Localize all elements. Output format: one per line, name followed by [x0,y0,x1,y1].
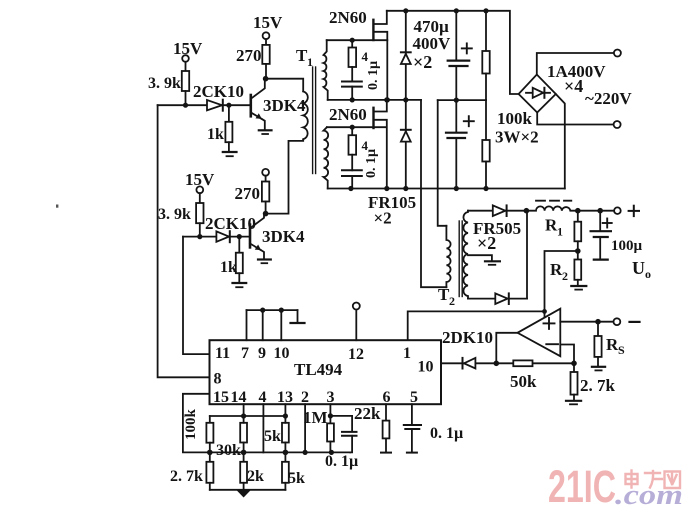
wire bottom ground rail [210,489,286,491]
ground R2 [571,286,586,290]
100k 3Wx2 label [495,109,539,147]
junction 1M bottom [329,450,334,455]
junction snubber1 top [350,38,355,43]
junction R1/R2 [575,248,581,254]
junction pin2 [303,450,308,455]
output - terminal [614,318,621,325]
wire opamp output [496,333,517,364]
svg-text:1k: 1k [207,126,224,143]
wire snubber1 bottom rail [328,99,421,101]
ground (1k stage2) [233,283,247,287]
wire opamp minus input [560,345,574,363]
junction FR105#1 mid rail [403,97,408,102]
Uo label [632,258,651,281]
diode FR505 #1 (top) [468,205,526,216]
svg-text:3. 9k: 3. 9k [158,206,191,223]
transistor Q2 3DK4 (stage2) [250,214,305,259]
wire pin2 lead [304,404,306,452]
junction opamp output / 50k [494,361,500,367]
svg-text:100k: 100k [497,109,533,128]
watermark CJK dianziwang [626,471,681,489]
resistor 100k (pin15/14) [183,409,213,453]
svg-text:2N60: 2N60 [329,8,367,27]
junction node collector/270#1 [263,76,269,82]
junction pin9 tie [260,308,265,313]
svg-text:9: 9 [258,345,266,362]
junction 100k1 top rail [483,8,488,13]
terminal circle 270#2 [262,169,269,176]
wire pin3 lead [329,404,331,416]
stray mark left border [56,205,58,208]
svg-text:2: 2 [562,269,568,283]
wire collector to T1 primary top [266,79,304,92]
wire base line stage2 [183,236,250,238]
bridge rectifier 1A400V x4 [519,75,556,113]
junction FR505 outputs [524,208,530,214]
resistor R 3.9k (stage2) [196,203,203,223]
diode FR105 #2 [401,100,411,189]
capacitor 0.1u (pin5) [404,404,463,452]
svg-text:S: S [618,343,625,357]
dashed core line above choke [536,200,571,202]
svg-text:12: 12 [348,346,364,363]
svg-text:×2: ×2 [374,209,392,228]
junction pin14 [241,413,246,418]
capacitor 100u [591,211,612,260]
svg-text:400V: 400V [413,34,452,53]
ground pins 7 9 10 [291,310,305,323]
junction snubber1 cap bottom [350,97,355,102]
wire minus rail [560,321,613,323]
junction node diode/1k/base [226,103,231,108]
ground triangle bottom network [237,490,251,497]
wire 15V to 3.9k stage2 [199,193,201,203]
resistor 4ohm #1 [349,40,369,81]
svg-text:2CK10: 2CK10 [193,82,244,101]
ground Rs [592,367,605,371]
junction 100k bottom [207,450,213,456]
junction node 3.9k/diode [183,103,188,108]
svg-text:10: 10 [418,359,434,376]
svg-text:o: o [645,267,651,281]
junction FR105#2 bottom rail [403,186,408,191]
wire gate line MOSFET2 / snubber2 top [327,126,386,128]
resistor 1k (stage1) [207,105,232,151]
Rs label [606,335,625,357]
junction MOSFET2 source bottom [384,186,389,191]
wire pin10 line [441,362,574,364]
svg-text:270: 270 [236,46,262,65]
wire pin15 loop to 100k [183,394,210,453]
svg-text:2: 2 [449,294,455,308]
resistor 1M [303,408,334,452]
470u 400V x2 label [413,17,452,72]
wire 3.9k to node stage2 [199,223,201,236]
svg-text:×2: ×2 [477,233,496,253]
inductor R1 choke [526,206,614,210]
IC U2 TL494 box [210,340,442,404]
svg-text:3. 9k: 3. 9k [148,75,181,92]
T1 label [296,46,313,69]
resistor 30k [216,416,247,459]
resistor 1k (stage2) [220,237,243,282]
svg-text:1M: 1M [303,408,328,427]
junction snubber2 top [350,125,355,130]
junction 100k2 bottom rail [483,186,488,191]
svg-text:7: 7 [241,345,249,362]
svg-text:30k: 30k [216,442,241,459]
transformer T2 core [459,221,462,297]
resistor R2 [574,251,581,285]
svg-text:22k: 22k [354,404,381,423]
terminal circle 270#1 [263,32,270,39]
wire 3.9k to node [185,91,187,105]
junction cap1 bottom / mid rail [454,98,459,103]
capacitor 0.1u (pin3) [325,416,358,470]
svg-text:3DK4: 3DK4 [263,96,306,115]
wire 15V to 3.9k [185,62,187,71]
junction snubber2 bottom [348,186,353,191]
diode FR505 #2 (bottom) [468,211,527,304]
svg-text:TL494: TL494 [294,360,343,379]
svg-text:2k: 2k [247,468,264,485]
plus sign output [629,206,639,216]
FR505 x2 label [473,219,521,253]
svg-text:10: 10 [274,345,290,362]
junction pin3 / 1M [328,413,333,418]
ground (1k stage1) [223,152,237,156]
resistor 50k (horizontal) [510,360,537,391]
transformer T1 core [313,67,316,174]
junction Rs top [595,319,601,325]
svg-text:0. 1µ: 0. 1µ [430,425,463,442]
wire mid rail B corner to T2 primary top [438,100,447,226]
wire top rail [387,11,519,94]
diode 2CK10 (stage2) [205,214,256,242]
ground 2.7k [566,401,581,405]
R1 label [545,216,563,239]
svg-text:3DK4: 3DK4 [262,227,305,246]
wire gate line MOSFET1 / snubber1 top [327,39,388,41]
svg-text:1: 1 [403,345,411,362]
AC terminal 1 [614,50,621,57]
svg-text:270: 270 [235,184,261,203]
wire pins 7 9 10 tie [247,310,298,340]
resistor 100k #1 [482,11,489,100]
resistor 2.7k (bottom row) [170,452,213,489]
resistor 2.7k (sense divider) [571,363,616,400]
T2 label [438,285,455,308]
resistor 5k lower (bottom row) [282,452,305,489]
junction MOSFET2 drain / rail [384,97,389,102]
resistor Rs [594,322,601,366]
terminal circle 15V stage1 [182,55,189,62]
wire collector2 to T1 primary bottom [266,139,304,213]
svg-text:50k: 50k [510,372,537,391]
transformer T1 primary winding [303,91,308,139]
wire bridge right corner down [556,94,565,189]
wire pin1 horizontal [408,311,545,340]
wire pin13 lead [284,404,286,416]
wire base line stage1 [158,104,251,106]
svg-text:15V: 15V [253,13,283,32]
output + terminal [614,207,621,214]
svg-text:~220V: ~220V [585,89,632,108]
diode FR105 #1 [401,11,411,100]
resistor 270 #1 [236,39,270,79]
transformer T1 secondary winding 1 [324,40,328,100]
AC terminal 2 [614,121,621,128]
op-amp U1 [518,309,561,357]
svg-text:U: U [632,258,645,278]
ground (Q1 emitter) [259,130,272,134]
capacitor 470u #2 [446,100,474,188]
wire top tie row [210,415,286,417]
svg-text:5k: 5k [264,428,281,445]
svg-text:21IC: 21IC [548,461,616,512]
svg-text:5k: 5k [288,470,305,487]
wire feedback R1R2 to opamp and pin1 [545,251,578,317]
junction FR105#1 top rail [403,8,408,13]
resistor 270 #2 [235,176,270,214]
capacitor 0.1u #1 (snubber1) [342,61,381,100]
junction cap1 top [454,8,459,13]
svg-text:0. 1µ: 0. 1µ [364,149,379,178]
svg-text:3W×2: 3W×2 [495,128,539,147]
diode 2CK10 (stage1) [193,82,244,111]
resistor R 3.9k (stage1) [182,71,189,91]
diode 2DK10 [442,328,493,369]
junction choke/100u [597,208,603,214]
junction 5k bottom [283,450,289,456]
junction cap2 bottom rail [454,186,459,191]
resistor 100k #2 [482,100,489,188]
wire bottom rail [328,188,565,190]
svg-text:100k: 100k [183,409,199,441]
svg-text:2DK10: 2DK10 [442,328,493,347]
wire stage2 to pin11 [183,237,210,355]
svg-text:1: 1 [557,225,563,239]
junction node collector/270#2 [263,211,269,217]
resistor 4ohm #2 [349,127,369,170]
wire pin4 lead [262,404,264,452]
svg-text:×4: ×4 [564,76,583,96]
svg-text:×2: ×2 [413,52,432,72]
wire pin6 lead [385,404,387,420]
transformer T2 secondary winding [463,211,468,299]
resistor 2k (bottom row) [240,452,264,489]
R2 label [550,260,568,283]
transformer T2 primary winding [446,226,450,287]
MOSFET 2N60 #2 [374,100,387,189]
junction pin10 tie [279,308,284,313]
svg-text:1k: 1k [220,259,237,276]
junction 50k / 2.7k / minus input [571,361,577,367]
svg-text:0. 1µ: 0. 1µ [325,453,358,470]
junction choke/R1 [575,208,581,214]
wire bridge bottom to AC terminal 2 [537,113,613,125]
junction node diode/1k/base stage2 [237,234,242,239]
transformer T1 secondary winding 2 [324,127,329,188]
terminal circle pin12 [353,303,360,310]
svg-text:15: 15 [213,389,229,406]
wire stage1 to pin8 [158,105,210,377]
junction MOSFET1 source / rail [385,97,390,102]
MOSFET 2N60 #1 [373,11,387,100]
1A400V x4 label [547,62,632,108]
junction pin13 top [283,413,288,418]
terminal circle 15V stage2 [196,186,203,193]
T2 center tap + ground [468,255,500,265]
svg-text:11: 11 [215,345,230,362]
ground (Q2 emitter) [258,260,271,264]
svg-text:2. 7k: 2. 7k [170,468,203,485]
FR105 x2 label [368,193,416,228]
minus sign output [630,321,640,323]
svg-text:2N60: 2N60 [329,105,367,124]
resistor R1 [574,211,581,251]
junction 30k bottom [241,450,247,456]
TL494 pin labels [213,345,434,406]
pin12 terminal wire [355,310,357,341]
transistor Q1 3DK4 (stage1) [251,79,306,130]
wire mid rail B [438,99,486,101]
svg-text:2CK10: 2CK10 [205,214,256,233]
capacitor 470u #1 [448,11,472,100]
svg-text:0. 1µ: 0. 1µ [366,61,381,90]
wire lower tie row [210,451,350,453]
resistor 22k [354,404,391,453]
wire rail A corner to T2 primary bottom [421,100,446,287]
svg-text:100µ: 100µ [611,238,643,254]
svg-text:8: 8 [214,371,222,388]
capacitor 0.1u #2 (snubber2) [342,149,379,189]
junction feedback/pin1 [542,309,547,314]
wire pin14 lead [243,404,245,415]
resistor 5k upper [264,416,289,452]
wire bridge top to AC terminal 1 [537,53,614,75]
svg-text:2. 7k: 2. 7k [580,376,616,395]
junction node 3.9k/diode stage2 [197,234,202,239]
